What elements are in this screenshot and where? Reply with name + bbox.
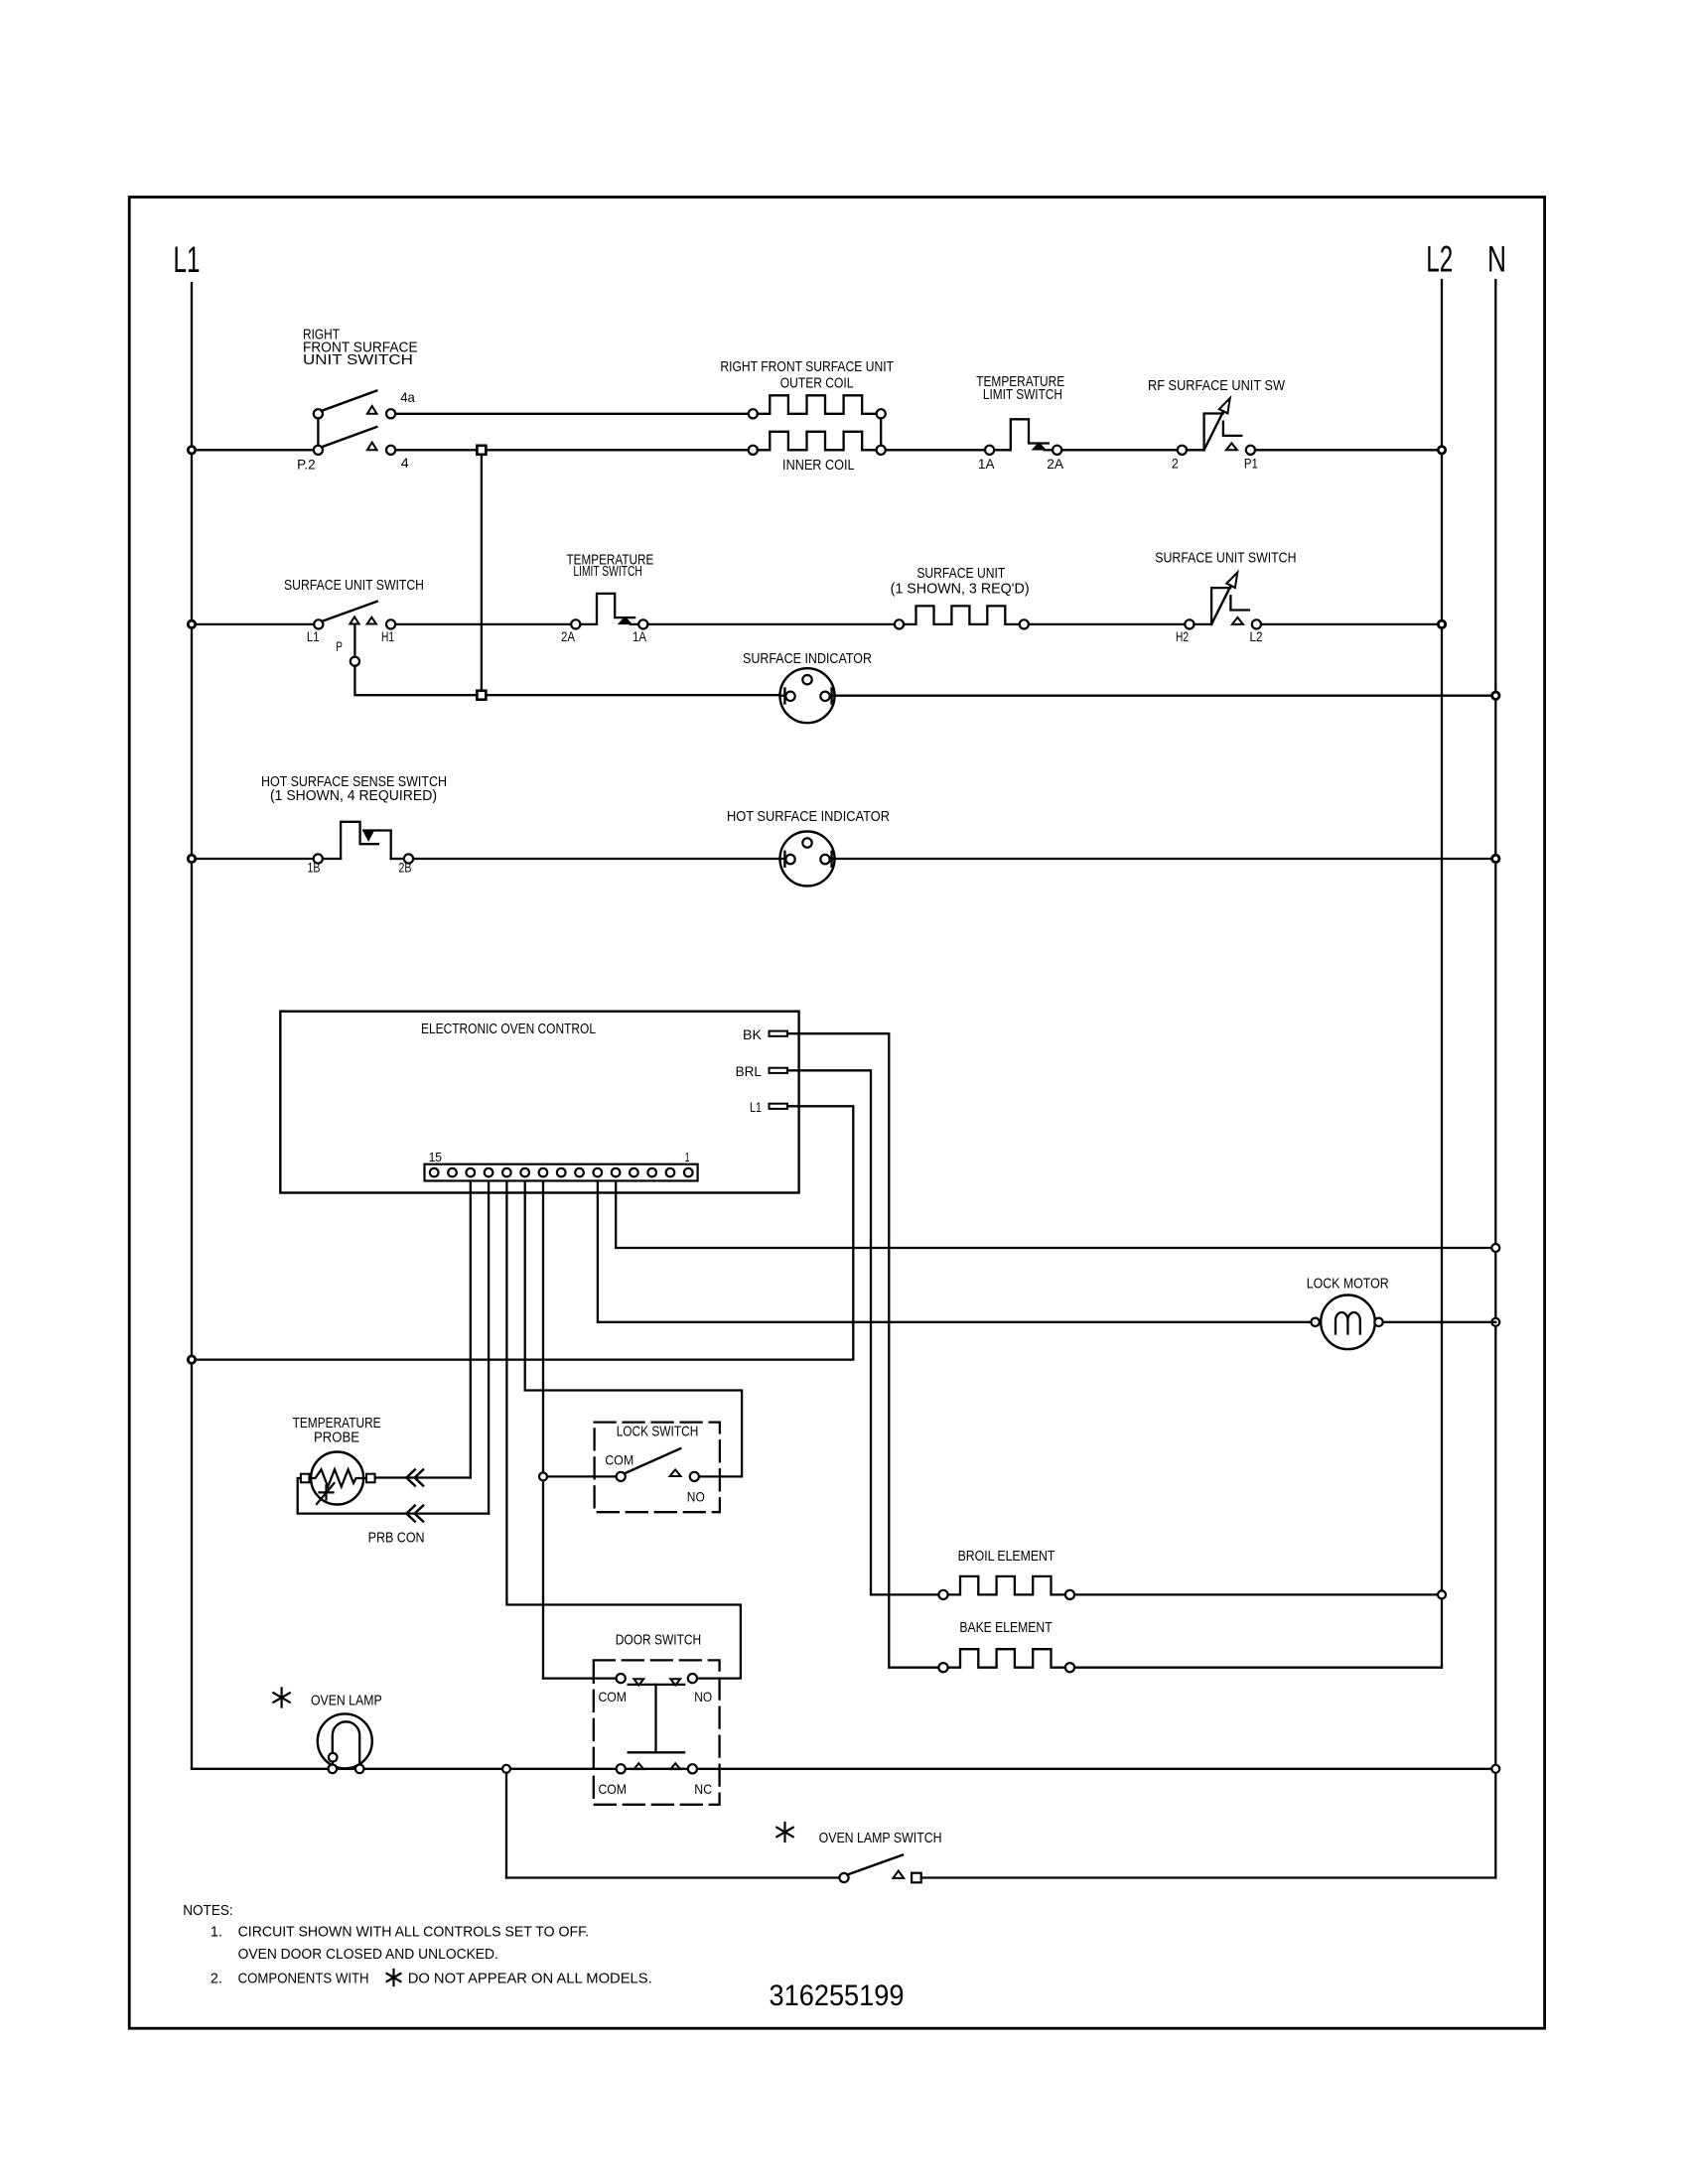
svg-text:DOOR SWITCH: DOOR SWITCH: [616, 1631, 701, 1648]
svg-text:L1: L1: [307, 628, 320, 644]
svg-text:NO: NO: [694, 1689, 712, 1705]
svg-text:2A: 2A: [561, 628, 576, 644]
svg-text:COM: COM: [605, 1451, 633, 1467]
svg-text:2A: 2A: [1047, 456, 1064, 472]
svg-text:4: 4: [401, 455, 409, 471]
svg-text:L1: L1: [750, 1099, 762, 1115]
svg-text:DO NOT APPEAR ON ALL MODELS.: DO NOT APPEAR ON ALL MODELS.: [408, 1971, 652, 1987]
svg-text:H2: H2: [1176, 628, 1189, 644]
svg-text:PRB CON: PRB CON: [368, 1530, 425, 1547]
svg-text:N: N: [1487, 239, 1506, 280]
svg-text:SURFACE UNIT SWITCH: SURFACE UNIT SWITCH: [1155, 550, 1296, 567]
svg-text:ELECTRONIC OVEN CONTROL: ELECTRONIC OVEN CONTROL: [421, 1021, 596, 1037]
svg-text:UNIT SWITCH: UNIT SWITCH: [303, 351, 413, 368]
svg-text:L1: L1: [174, 239, 201, 280]
svg-text:P1: P1: [1244, 456, 1258, 472]
svg-text:OUTER COIL: OUTER COIL: [780, 375, 854, 392]
svg-text:NOTES:: NOTES:: [183, 1902, 233, 1919]
svg-text:1: 1: [685, 1150, 690, 1164]
svg-text:INNER COIL: INNER COIL: [782, 457, 855, 474]
svg-text:SURFACE UNIT SWITCH: SURFACE UNIT SWITCH: [284, 577, 424, 594]
svg-text:SURFACE UNIT: SURFACE UNIT: [916, 565, 1005, 582]
svg-text:COM: COM: [598, 1781, 627, 1797]
svg-text:LIMIT SWITCH: LIMIT SWITCH: [983, 386, 1062, 403]
svg-text:COM: COM: [598, 1689, 627, 1705]
svg-text:4a: 4a: [400, 389, 415, 405]
svg-text:1A: 1A: [978, 456, 995, 472]
svg-text:1A: 1A: [633, 628, 647, 644]
svg-text:CIRCUIT SHOWN WITH ALL CONTROL: CIRCUIT SHOWN WITH ALL CONTROLS SET TO O…: [238, 1923, 589, 1940]
svg-text:2: 2: [1172, 456, 1179, 472]
svg-text:H1: H1: [381, 628, 394, 644]
svg-text:NO: NO: [687, 1489, 705, 1505]
svg-text:RF SURFACE UNIT SW: RF SURFACE UNIT SW: [1148, 377, 1286, 394]
svg-text:1.: 1.: [211, 1923, 222, 1940]
svg-text:P.2: P.2: [297, 457, 316, 473]
svg-text:L2: L2: [1426, 239, 1453, 280]
svg-text:BRL: BRL: [736, 1063, 763, 1079]
svg-text:316255199: 316255199: [770, 1979, 905, 2012]
svg-text:BAKE ELEMENT: BAKE ELEMENT: [959, 1619, 1052, 1636]
svg-text:15: 15: [429, 1150, 442, 1164]
svg-text:L2: L2: [1250, 628, 1263, 644]
svg-text:SURFACE INDICATOR: SURFACE INDICATOR: [743, 650, 872, 667]
svg-text:(1 SHOWN, 3 REQ'D): (1 SHOWN, 3 REQ'D): [891, 581, 1030, 598]
svg-text:2.: 2.: [211, 1971, 222, 1987]
svg-text:HOT SURFACE INDICATOR: HOT SURFACE INDICATOR: [727, 808, 890, 825]
svg-text:LOCK SWITCH: LOCK SWITCH: [617, 1424, 699, 1440]
svg-text:2B: 2B: [399, 860, 412, 876]
svg-text:P: P: [336, 638, 343, 654]
svg-text:LIMIT SWITCH: LIMIT SWITCH: [573, 563, 641, 580]
svg-text:NC: NC: [694, 1781, 712, 1797]
svg-text:(1 SHOWN, 4 REQUIRED): (1 SHOWN, 4 REQUIRED): [270, 787, 437, 804]
svg-text:OVEN LAMP: OVEN LAMP: [311, 1692, 382, 1708]
svg-text:1B: 1B: [308, 860, 321, 876]
svg-text:PROBE: PROBE: [314, 1430, 359, 1446]
svg-text:BK: BK: [743, 1026, 763, 1042]
svg-text:RIGHT FRONT SURFACE UNIT: RIGHT FRONT SURFACE UNIT: [720, 358, 894, 375]
svg-text:OVEN LAMP SWITCH: OVEN LAMP SWITCH: [819, 1830, 942, 1846]
svg-text:COMPONENTS WITH: COMPONENTS WITH: [238, 1971, 369, 1987]
svg-text:BROIL ELEMENT: BROIL ELEMENT: [958, 1548, 1055, 1565]
svg-text:LOCK MOTOR: LOCK MOTOR: [1307, 1276, 1389, 1293]
svg-text:OVEN DOOR CLOSED AND UNLOCKED.: OVEN DOOR CLOSED AND UNLOCKED.: [238, 1946, 498, 1963]
